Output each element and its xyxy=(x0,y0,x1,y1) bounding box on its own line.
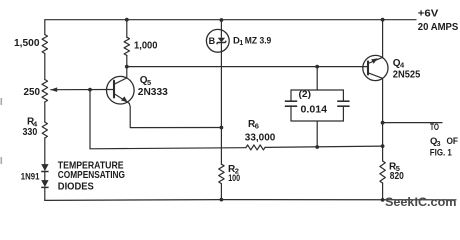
svg-text:SeekIC.com: SeekIC.com xyxy=(385,195,457,209)
svg-text:(2): (2) xyxy=(299,89,312,99)
svg-text:2N333: 2N333 xyxy=(138,87,168,98)
svg-text:B: B xyxy=(209,36,216,46)
svg-text:0.014: 0.014 xyxy=(301,104,328,115)
svg-text:1N91: 1N91 xyxy=(21,172,40,183)
svg-text:330: 330 xyxy=(23,127,38,138)
svg-text:100: 100 xyxy=(228,173,240,183)
svg-text:1,500: 1,500 xyxy=(14,38,40,49)
svg-text:2N525: 2N525 xyxy=(393,70,421,81)
svg-text:1: 1 xyxy=(239,40,243,47)
svg-text:33,000: 33,000 xyxy=(245,133,276,144)
svg-text:OF: OF xyxy=(447,136,459,147)
svg-text:DIODES: DIODES xyxy=(58,181,94,192)
svg-text:1,000: 1,000 xyxy=(134,41,158,52)
svg-text:250: 250 xyxy=(24,87,41,98)
svg-text:5: 5 xyxy=(147,78,151,87)
svg-text:+6V: +6V xyxy=(418,8,439,20)
svg-text:FIG. 1: FIG. 1 xyxy=(430,148,453,159)
svg-text:TO: TO xyxy=(430,122,439,133)
svg-text:MZ 3.9: MZ 3.9 xyxy=(245,36,271,47)
svg-text:20 AMPS: 20 AMPS xyxy=(418,21,459,33)
svg-text:COMPENSATING: COMPENSATING xyxy=(58,170,125,181)
svg-text:6: 6 xyxy=(255,122,259,131)
svg-text:820: 820 xyxy=(390,171,404,182)
